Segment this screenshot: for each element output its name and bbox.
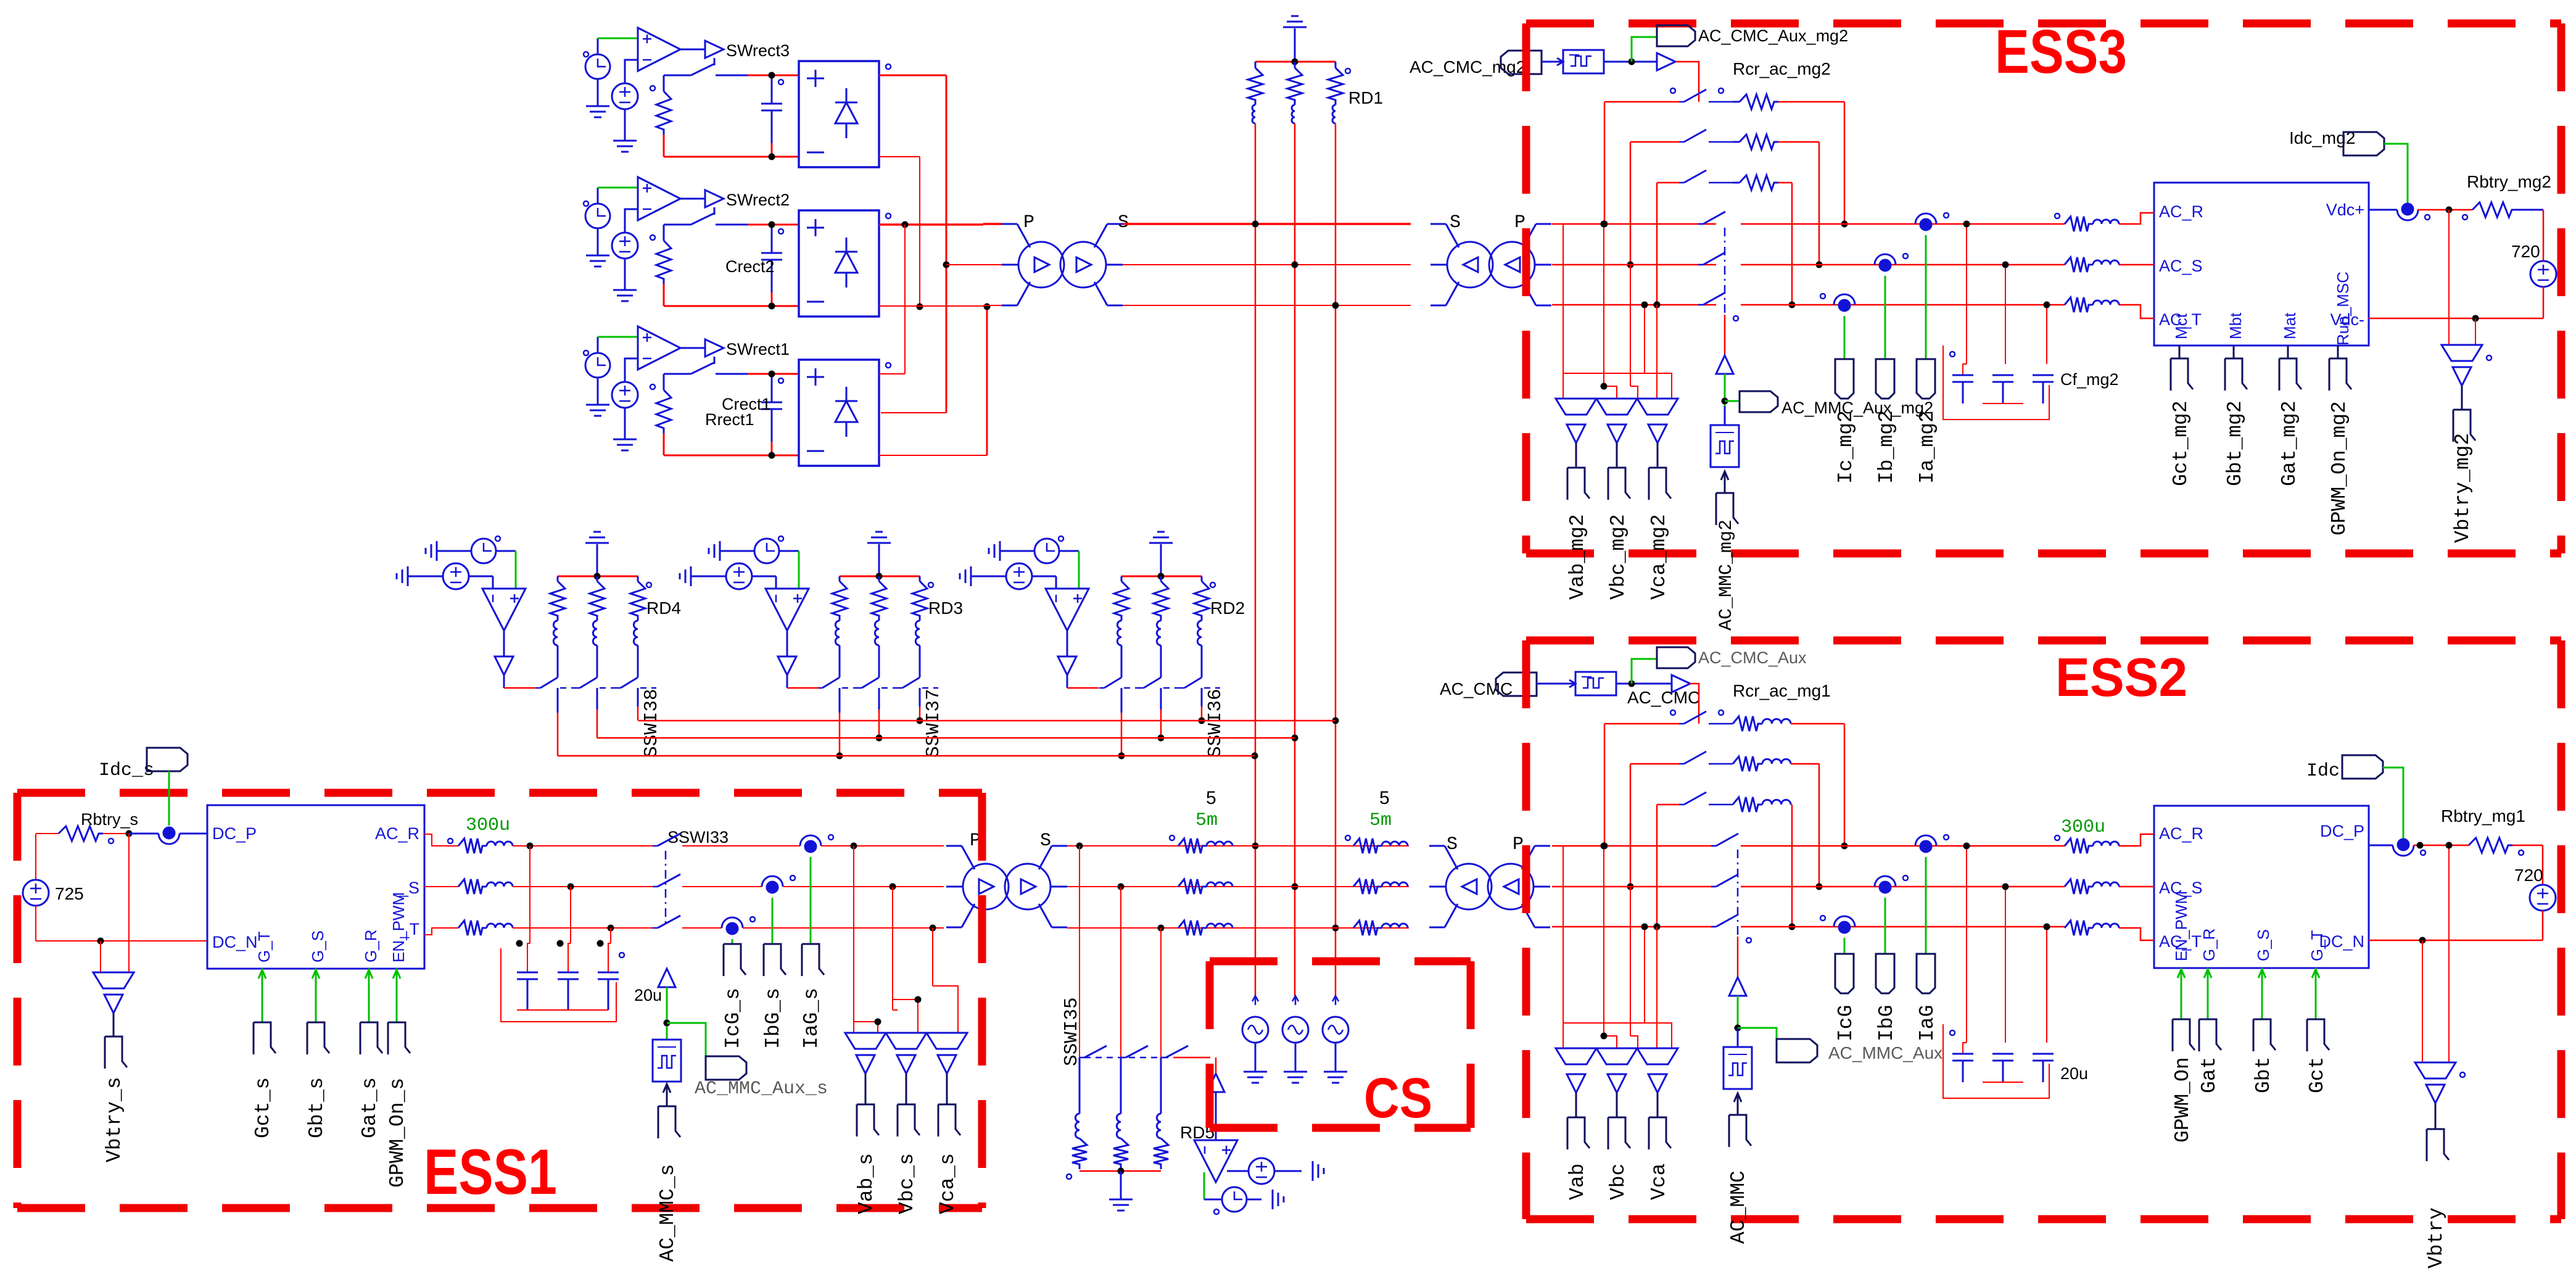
capacitor Crect2 <box>771 225 773 253</box>
rotated ground for RD5 dc <box>1313 1161 1324 1181</box>
tag AC_CMC_Aux <box>1657 647 1695 668</box>
junction dots of SWrect3 cell <box>769 72 775 79</box>
left feeder RL phase R <box>1170 835 1174 840</box>
PWM block (AC_MMC) <box>1724 406 1726 425</box>
Rcr row 3 right wire <box>1778 182 1792 184</box>
svg-text:20u: 20u <box>2060 1064 2088 1083</box>
RD4 top bus wire <box>558 576 638 577</box>
red stub to switch row (SSWI36) <box>1067 675 1068 688</box>
Rcr row 2 left riser <box>1630 764 1632 887</box>
Rcr row 1 right riser <box>1844 102 1846 224</box>
wire clock to op-amp SWrect1 <box>597 337 599 353</box>
ground sine c <box>1335 1043 1337 1072</box>
svg-text:AC_S: AC_S <box>2159 257 2203 275</box>
comparator (SSWI37) <box>775 576 777 589</box>
resistor Rbtry_s <box>49 833 59 834</box>
phase row R wire (ESS) <box>1552 845 1716 847</box>
svg-text:RD2: RD2 <box>1210 598 1245 618</box>
ground sine a <box>1255 1043 1257 1072</box>
phase row T wire (ESS) <box>1552 304 1716 306</box>
PWM modulator block (ESS1) <box>653 1040 681 1082</box>
rotated ground for RD5 clock <box>1273 1190 1284 1209</box>
main switch SSWI (ESS3) <box>1698 223 1703 225</box>
Rcr row 2 resistor <box>1733 756 1762 771</box>
wire source to DC_N (ESS2) <box>2542 911 2544 940</box>
Rcr row 3 resistor <box>1740 175 1778 190</box>
svg-text:AC_MMC: AC_MMC <box>1727 1170 1750 1244</box>
meter Vbtry_mg2 <box>2442 345 2482 361</box>
tag IcG <box>1835 954 1854 993</box>
svg-text:P: P <box>1513 834 1524 855</box>
bottom tags of MSC: Gct_mg2 Gbt_mg2 Gat_mg2 GPWM_On_mg2 <box>2179 346 2181 358</box>
bottom tags of MMC: GPWM_On Gat Gbt Gct <box>2181 968 2182 987</box>
dc source 725 <box>36 833 49 834</box>
wire op-amp to buffer SWrect2 <box>680 198 705 200</box>
svg-text:IcG_s: IcG_s <box>722 988 745 1049</box>
phase row R wire (ESS) <box>1552 223 1716 225</box>
wire PWM to buffer <box>1616 683 1672 685</box>
T1 primary connections <box>983 223 1002 225</box>
ESS1 phase T inductor <box>458 921 487 935</box>
svg-text:Crect2: Crect2 <box>725 257 775 276</box>
tag IbG <box>1876 954 1894 993</box>
svg-text:Gat_mg2: Gat_mg2 <box>2278 400 2301 486</box>
RD3 top bus wire <box>840 576 920 577</box>
RD2 branch 3 inductor <box>1197 621 1202 645</box>
switch SWrect3 <box>714 58 716 65</box>
ESS1 phase R pin jog <box>424 834 458 846</box>
label RD4 <box>646 582 651 587</box>
dc source 720 (ESS3) <box>2530 261 2556 287</box>
phase row S wire (ESS) <box>1552 264 1716 266</box>
RD4 branch 1 resistor <box>557 576 559 581</box>
risers to Vbtry_mg2 meter <box>2448 210 2450 345</box>
clock source for SWrect2 <box>585 204 610 228</box>
svg-text:300u: 300u <box>2061 817 2105 838</box>
svg-text:Vca_mg2: Vca_mg2 <box>1648 514 1670 600</box>
svg-text:Vab_s: Vab_s <box>855 1153 878 1214</box>
down buffer (SSWI37) <box>786 631 788 656</box>
Rcr row 2 left riser <box>1630 142 1632 265</box>
current probe IaG_s (phase R) <box>800 835 821 846</box>
RD1 branch b <box>1294 62 1296 68</box>
tag AC_CMC_Aux_mg2 <box>1657 25 1695 46</box>
diode rectifier block of SWrect3 <box>799 61 879 167</box>
svg-text:G_S: G_S <box>2254 929 2273 961</box>
ESS2 phase RL inductors <box>2065 838 2093 853</box>
RD3 branch 3 resistor <box>919 576 921 581</box>
junction at Rbtry_s output <box>126 830 133 837</box>
svg-text:Ic_mg2: Ic_mg2 <box>1835 410 1857 484</box>
svg-text:S: S <box>1118 212 1129 233</box>
svg-text:Gbt_mg2: Gbt_mg2 <box>2224 400 2247 486</box>
gate signal tags Gct_s Gbt_s Gat_s GPWM_On_s <box>262 969 263 987</box>
wire resistor to source 720 (ESS2) <box>2512 845 2543 846</box>
Rcr row 2 switch <box>1630 763 1679 765</box>
op-amp comparator of SWrect3 <box>638 28 680 71</box>
down buffer (SSWI36) <box>1067 631 1068 656</box>
wire probe to Rbtry_mg2 <box>2418 209 2472 211</box>
svg-text:20u: 20u <box>634 986 662 1004</box>
buffer to PWM (ESS1) <box>658 969 675 987</box>
svg-text:725: 725 <box>55 884 84 903</box>
svg-text:Vbtry_mg2: Vbtry_mg2 <box>2451 433 2474 543</box>
diode rectifier block of SWrect1 <box>799 360 879 466</box>
main switch SSWI (ESS2) <box>1711 845 1716 847</box>
svg-text:DC_P: DC_P <box>2320 822 2364 840</box>
rotated ground clock ref (SSWI37) <box>719 541 721 561</box>
dc source (SSWI37) <box>691 576 726 577</box>
ESS1 wires switch to probes <box>682 845 800 846</box>
Rcr row 1 right wire <box>1778 101 1844 103</box>
ESS2 phase pin jogs <box>2119 834 2154 846</box>
ESS3 phase RL inductors <box>2065 217 2093 231</box>
red wire buffer to Rcr row <box>1675 62 1699 102</box>
RD4 branch 3 inductor <box>634 621 638 645</box>
svg-text:Rcr_ac_mg1: Rcr_ac_mg1 <box>1733 681 1831 700</box>
RD3 branch 1 inductor <box>835 621 840 645</box>
svg-text:G_S: G_S <box>308 930 327 962</box>
wire clock to op-amp SWrect2 <box>597 188 599 204</box>
junction dots RD1 columns at SSWI buses <box>1332 718 1339 724</box>
comparator (SSWI36) <box>1055 576 1057 589</box>
Rcr row 3 resistor <box>1733 797 1762 812</box>
svg-text:Ib_mg2: Ib_mg2 <box>1875 410 1898 484</box>
wire SWrect2 - output (T-phase) <box>879 305 983 307</box>
green wire to AC_MMC_Aux_mg2 tag 2 <box>1725 400 1740 402</box>
ESS3 phase pin jogs <box>2119 213 2154 224</box>
wire dc source to op-amp SWrect2 <box>625 209 638 233</box>
RD2 column drops to buses <box>1121 688 1123 713</box>
RD2 branch 2 inductor <box>1157 621 1161 645</box>
svg-text:Gat: Gat <box>2198 1057 2221 1093</box>
RD2 top bus wire <box>1121 576 1202 577</box>
Rcr row 2 right riser <box>1818 142 1820 265</box>
svg-text:IaG_s: IaG_s <box>800 988 823 1049</box>
meter Vca_s <box>927 1033 967 1049</box>
SSWI35 drop wires <box>1079 846 1080 1058</box>
ESS1 filter capacitor bank <box>529 846 530 943</box>
switch SWrect2 <box>714 207 716 215</box>
label RD1 <box>1345 68 1350 73</box>
RD4 branch 2 resistor <box>597 576 598 581</box>
dc source for SWrect3 <box>612 83 638 109</box>
ESS1 box right edge overlay (dashed) <box>978 793 986 1208</box>
clock source for SWrect3 <box>585 54 610 79</box>
svg-text:GPWM_On: GPWM_On <box>2171 1057 2194 1143</box>
RD4 branch 3 resistor <box>637 576 639 581</box>
ground sine b <box>1295 1043 1297 1072</box>
wire source to DC_N <box>35 906 36 941</box>
green output of RD5 <box>1203 1172 1205 1199</box>
bottom wire of SWrect1 cell <box>663 433 665 455</box>
green wire Idc to probe <box>2383 768 2403 839</box>
svg-text:SSWI38: SSWI38 <box>641 689 663 758</box>
green wire clock to comparator (SSWI38) <box>496 550 516 552</box>
ESS1 Vab/Vbc/Vca feed risers <box>853 846 854 1022</box>
switch SSWI35 <box>1080 1057 1173 1058</box>
ESS3 boundary box (dashed) <box>1526 20 2561 28</box>
RD3 branch 3 inductor <box>915 621 920 645</box>
dc source for SWrect1 <box>612 382 638 408</box>
clock source (SSWI37) <box>720 550 754 552</box>
tag AC_MMC_Aux_s <box>706 1056 746 1080</box>
Rcr row 2 right riser <box>1818 764 1820 887</box>
tag IbG_s <box>764 944 786 975</box>
transformer T2 <box>1447 242 1493 288</box>
MSC block (ESS3) <box>2154 183 2369 346</box>
RD4 branch 1 inductor <box>553 621 558 645</box>
meter Vbc <box>1596 1048 1637 1064</box>
wire dc source to op-amp SWrect1 <box>625 358 638 382</box>
svg-text:G_R: G_R <box>361 930 380 962</box>
current probe IbG_s (phase S) <box>762 876 783 887</box>
wire probe to DC_P pin <box>129 833 159 835</box>
wire switch to rectifier block SWrect1 <box>748 373 799 375</box>
right feeder RL phase S <box>1353 879 1382 894</box>
Rcr row 1 left riser <box>1604 102 1606 224</box>
svg-text:Vbtry: Vbtry <box>2425 1207 2448 1269</box>
ground above RD4 <box>597 544 598 576</box>
rotated ground dc ref (SSWI37) <box>690 566 692 586</box>
svg-text:G_R: G_R <box>2200 929 2218 961</box>
Rcr row 1 resistor <box>1733 716 1762 731</box>
svg-text:Run_MSC: Run_MSC <box>2334 271 2352 346</box>
ground under dc source of SWrect3 <box>624 109 626 141</box>
tag IaG_s <box>802 944 824 975</box>
svg-text:AC_CMC_Aux: AC_CMC_Aux <box>1698 648 1807 667</box>
svg-text:RD1: RD1 <box>1348 88 1383 107</box>
current probe on Vdc+ (ESS3) <box>2369 209 2397 211</box>
svg-text:Ia_mg2: Ia_mg2 <box>1916 410 1939 484</box>
green wire Idc_mg2 to probe <box>2384 144 2408 204</box>
tag Ia_mg2 <box>1917 359 1935 399</box>
sine source c (CS) <box>1323 1017 1348 1043</box>
rotated ground dc ref (SSWI38) <box>407 566 409 586</box>
down buffer (SSWI38) <box>503 631 505 656</box>
ground under SSWI35 branches <box>1120 1171 1122 1199</box>
svg-text:Vab: Vab <box>1566 1164 1589 1200</box>
junction dots of SWrect2 cell <box>769 221 775 228</box>
meter Vab_mg2 <box>1556 399 1596 415</box>
arrow tag AC_MMC <box>1737 1093 1739 1115</box>
current probe IcG_s (phase T) <box>722 917 743 928</box>
SSWI35 bottom bus <box>1080 1170 1161 1172</box>
svg-text:IbG: IbG <box>1875 1005 1898 1041</box>
ground under clock of SWrect1 <box>597 378 599 405</box>
svg-text:IaG: IaG <box>1916 1005 1939 1041</box>
riser to Vbtry_s meter <box>100 941 101 972</box>
svg-text:Rcr_ac_mg2: Rcr_ac_mg2 <box>1733 59 1831 78</box>
resistor Rrect3 <box>663 75 665 91</box>
rotated ground clock ref (SSWI36) <box>999 541 1001 561</box>
svg-text:RD4: RD4 <box>646 598 681 618</box>
Rcr row 1 switch <box>1604 723 1679 725</box>
Rcr row 3 right wire <box>1791 804 1792 806</box>
top bus phase S <box>1123 264 1411 265</box>
arrow AC_CMC to PWM <box>1537 683 1575 685</box>
svg-text:SSWI35: SSWI35 <box>1061 997 1083 1066</box>
svg-text:SSWI36: SSWI36 <box>1205 689 1226 758</box>
svg-text:GPWM_On_mg2: GPWM_On_mg2 <box>2328 401 2351 536</box>
svg-text:EN_PWM: EN_PWM <box>389 892 408 962</box>
svg-text:Rbtry_mg1: Rbtry_mg1 <box>2441 806 2525 826</box>
svg-text:AC_MMC_Aux_mg2: AC_MMC_Aux_mg2 <box>1781 399 1933 417</box>
svg-text:Rbtry_mg2: Rbtry_mg2 <box>2467 172 2551 191</box>
dc source for SWrect2 <box>612 233 638 259</box>
current probe phase S (ESS) <box>1875 254 1896 265</box>
svg-text:Gat_s: Gat_s <box>358 1077 381 1138</box>
RD2 branch 2 resistor <box>1160 576 1162 581</box>
RD1 column a riser <box>1255 123 1257 996</box>
green wire clock to comparator (SSWI37) <box>779 550 799 552</box>
svg-text:DC_P: DC_P <box>212 824 257 843</box>
capacitor Crect3 <box>771 75 773 104</box>
svg-text:S: S <box>1450 212 1461 233</box>
buffer gate of SWrect1 <box>705 339 724 357</box>
op-amp comparator of SWrect2 <box>638 177 680 220</box>
Rcr row 3 right riser <box>1791 805 1793 927</box>
label RD3 <box>928 582 933 587</box>
PWM block (AC_CMC) <box>1575 672 1616 695</box>
up buffer to AC_MMC PWM <box>1729 977 1746 996</box>
arrow AC_CMC_mg2 to PWM <box>1542 61 1563 63</box>
voltage meter feed risers <box>1563 846 1564 1023</box>
dc source 720 (ESS2) <box>2530 885 2556 911</box>
rotated ground clock ref (SSWI38) <box>436 541 438 561</box>
wire switch to rectifier block SWrect3 <box>748 75 799 77</box>
svg-text:AC_MMC_s: AC_MMC_s <box>656 1164 679 1262</box>
RD4 branch 2 inductor <box>593 621 597 645</box>
RD3 branch 2 inductor <box>875 621 879 645</box>
SSWI bus wire 1 (top) <box>638 720 1335 722</box>
switch row SSWI37 <box>817 687 822 689</box>
SSWI bus wire 2 (middle) <box>597 737 1295 739</box>
riser from T-phase to SWrect1 - output <box>879 455 987 456</box>
current probe on DC_P (ESS1) <box>159 834 180 844</box>
Rcr row 3 right riser <box>1791 183 1793 305</box>
mid bus phase T <box>1067 927 1409 929</box>
red drop from switch to PWM buffer <box>1724 315 1726 355</box>
clock source (SSWI36) <box>1000 550 1034 552</box>
clock source for SWrect1 <box>585 353 610 378</box>
ESS1 phase S inductor <box>458 879 487 894</box>
resistor Rrect1 <box>663 374 665 390</box>
top bus phase T <box>1123 305 1411 306</box>
svg-text:Vab_mg2: Vab_mg2 <box>1566 514 1589 600</box>
svg-text:5m: 5m <box>1195 810 1218 831</box>
ground under clock of SWrect2 <box>597 228 599 255</box>
svg-text:AC_CMC_Aux_mg2: AC_CMC_Aux_mg2 <box>1698 27 1848 45</box>
Rcr row 3 left riser <box>1656 183 1658 305</box>
current probe phase R (ESS) <box>1915 835 1936 846</box>
meter Vbtry (ESS2) <box>2415 1062 2456 1078</box>
wire clock to op-amp SWrect3 <box>597 38 599 54</box>
transformer T1 <box>1018 242 1064 288</box>
red stub to switch row (SSWI38) <box>503 675 505 688</box>
phase row S wire (ESS) <box>1552 886 1716 888</box>
svg-text:Vbtry_s: Vbtry_s <box>103 1077 126 1162</box>
current probe phase T (ESS) <box>1834 916 1855 927</box>
ESS2 boundary box (dashed) <box>1526 637 2561 645</box>
svg-text:G_T: G_T <box>255 931 273 962</box>
meter Vab_s <box>845 1033 886 1049</box>
mid bus phase S <box>1067 886 1409 887</box>
PWM block (AC_CMC_mg2) <box>1563 50 1604 73</box>
arrow tag AC_MMC_mg2 <box>1724 471 1726 493</box>
Rcr row 2 switch <box>1630 141 1679 143</box>
ESS1 wires probes to transformer <box>821 845 944 846</box>
svg-text:Vbc_mg2: Vbc_mg2 <box>1607 514 1630 600</box>
Rcr row 1 switch <box>1604 101 1679 103</box>
ESS1 phase wires to switch SSWI33 <box>513 845 653 846</box>
svg-text:720: 720 <box>2511 242 2540 261</box>
ESS1 phase R inductor <box>458 838 487 853</box>
wire switch to rectifier block SWrect2 <box>748 224 799 226</box>
svg-text:Mbt: Mbt <box>2226 312 2245 339</box>
SSWI bus wire 3 (bottom) <box>558 755 1255 757</box>
svg-text:G_T: G_T <box>2308 930 2326 961</box>
rotated ground dc ref (SSWI36) <box>970 566 972 586</box>
phase row T wire (ESS) <box>1552 926 1716 928</box>
svg-text:Vdc+: Vdc+ <box>2326 201 2364 219</box>
switch SWrect1 <box>714 357 716 364</box>
left feeder RL phase S <box>1178 879 1207 894</box>
Rcr row 2 right wire <box>1778 141 1819 143</box>
ground above RD2 <box>1160 544 1162 576</box>
svg-text:Gct_s: Gct_s <box>252 1077 275 1138</box>
riser joining SWrect2 and SWrect1 + outputs <box>904 225 906 374</box>
capacitor Crect1 <box>771 374 773 402</box>
green wire to AC_MMC_Aux_s tag <box>667 1023 706 1056</box>
ground above RD1 <box>1294 28 1296 62</box>
current probe phase S (ESS) <box>1875 876 1896 887</box>
tag AC_MMC_Aux_mg2 <box>1740 391 1778 412</box>
tag AC_MMC_Aux <box>1777 1039 1817 1062</box>
junction dots RD1 columns at bottom rows <box>1252 843 1259 850</box>
voltage meter feed risers <box>1563 224 1564 373</box>
svg-text:Vca: Vca <box>1648 1164 1670 1200</box>
RD2 branch 1 inductor <box>1117 621 1121 645</box>
ESS1 phase T pin jog <box>424 928 458 935</box>
svg-text:720: 720 <box>2514 866 2543 885</box>
red wire buffer to Rcr row <box>1690 684 1699 724</box>
svg-text:AC_R: AC_R <box>2159 824 2203 843</box>
svg-text:SWrect3: SWrect3 <box>726 41 790 60</box>
dc source for RD5 <box>1227 1170 1249 1172</box>
RD1 column c riser <box>1335 123 1337 996</box>
green drops to current tags (ESS1) <box>732 939 733 944</box>
svg-text:Vbc_s: Vbc_s <box>896 1153 919 1214</box>
buffer (AC_CMC) <box>1672 675 1690 692</box>
wire source to Vdc- <box>2543 287 2545 318</box>
meter Vbc_s <box>886 1033 927 1049</box>
svg-text:AC_R: AC_R <box>375 824 419 843</box>
Rcr row 2 resistor <box>1740 135 1778 149</box>
svg-text:5m: 5m <box>1369 810 1392 831</box>
ESS1 phase S wire <box>424 886 458 887</box>
svg-text:AC_MMC_Aux_s: AC_MMC_Aux_s <box>695 1078 828 1099</box>
svg-text:IcG: IcG <box>1835 1005 1857 1041</box>
label RD2 <box>1210 582 1215 587</box>
wire probe to Rbtry_mg1 <box>2414 845 2469 846</box>
buffer (AC_CMC_mg2) <box>1657 53 1675 70</box>
svg-text:SWrect2: SWrect2 <box>726 191 790 209</box>
green wire to AC_CMC_Aux_mg2 tag <box>1632 37 1657 62</box>
wire dc source to op-amp SWrect3 <box>625 60 638 83</box>
resistor Rbtry_mg2 <box>2472 202 2516 217</box>
RD3 branch 1 resistor <box>839 576 841 581</box>
